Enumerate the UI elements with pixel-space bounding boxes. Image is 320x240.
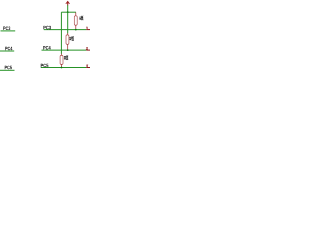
resistor R1 [74,12,83,29]
power symbol VCC [66,1,70,6]
wire stub PC5 [0,69,15,71]
junction row 2 R2 node [67,49,69,51]
wire R2 stem vertical [67,12,69,33]
pin 2 line [86,49,90,51]
wire row 2 net PC4 [42,49,87,51]
label PC5 (left stub) [5,66,12,70]
wire left rail vertical [60,12,62,54]
junction row 3 R3 node [61,67,63,69]
resistor R2 [66,33,74,50]
pin 3 line [86,67,90,69]
pin number 2 [86,48,87,50]
wire stub PC4 [0,50,14,52]
label PC4 (row 2) [43,46,50,50]
resistor R3 [60,54,68,68]
wire row 1 net PC3 [44,29,87,31]
pin number 3 [86,65,87,67]
pin 1 line [86,29,90,31]
pin number 1 [86,27,89,29]
label PC3 (left stub) [3,27,10,31]
wire stub PC3 [1,30,16,32]
junction VCC node [67,11,69,13]
junction row 1 R1 node [75,29,77,31]
wire row 3 net PC5 [41,67,87,69]
label PC4 (left stub) [5,47,12,51]
wire top horizontal [61,11,76,13]
label PC3 (row 1) [43,26,50,30]
label PC5 (row 3) [41,64,49,68]
wire VCC stem [67,5,69,12]
